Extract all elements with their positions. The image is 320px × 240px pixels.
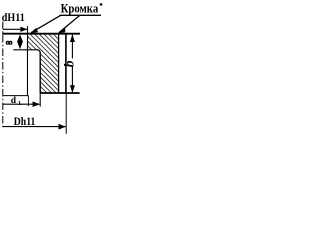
rotated 8 (infinity-looking) value label [6,41,11,44]
leader 2 arrowhead [58,27,65,34]
dH11 dimension line [3,28,27,30]
svg-text:b: b [61,60,76,67]
b bottom arrowhead [70,85,75,93]
d1 extension line [39,93,41,107]
centerline (axis, dash-dot) [2,22,4,129]
shaft edge below end face [27,96,29,106]
bore wall / shaft surface line [27,26,29,95]
svg-text:1: 1 [18,100,21,107]
leader 1 [31,15,61,32]
d1 arrowhead [33,101,40,107]
svg-text:Dh11: Dh11 [14,114,36,128]
footnote asterisk [100,3,103,6]
svg-text:Кромка: Кромка [61,2,99,16]
groove top face + extension line [13,49,37,51]
small gap dimension diamond (arrow tips) [17,34,23,49]
Dh11 dimension line [3,126,66,128]
hatched section: upper band + lower block with groove fillet [28,34,59,93]
b top arrowhead [70,34,75,42]
svg-text:dH11: dH11 [2,12,25,24]
inner step line [58,34,60,93]
shaft end face line [3,95,29,97]
part right edge (outer diameter Dh11 surface) [65,33,67,94]
svg-text:d: d [11,96,17,106]
leader 2 [59,16,80,33]
part bottom face line + b extension [40,92,80,94]
note underline [60,14,101,16]
dH11 arrowhead [20,27,27,32]
groove fillet and right wall [37,50,40,93]
Dh11 arrowhead [59,124,66,130]
Dh11 extension line [65,94,67,134]
b dimension line [71,34,73,58]
part top face line (extends to b extension) [2,33,80,35]
leader 1 arrowhead [30,28,38,34]
d1 dimension line [3,103,40,105]
